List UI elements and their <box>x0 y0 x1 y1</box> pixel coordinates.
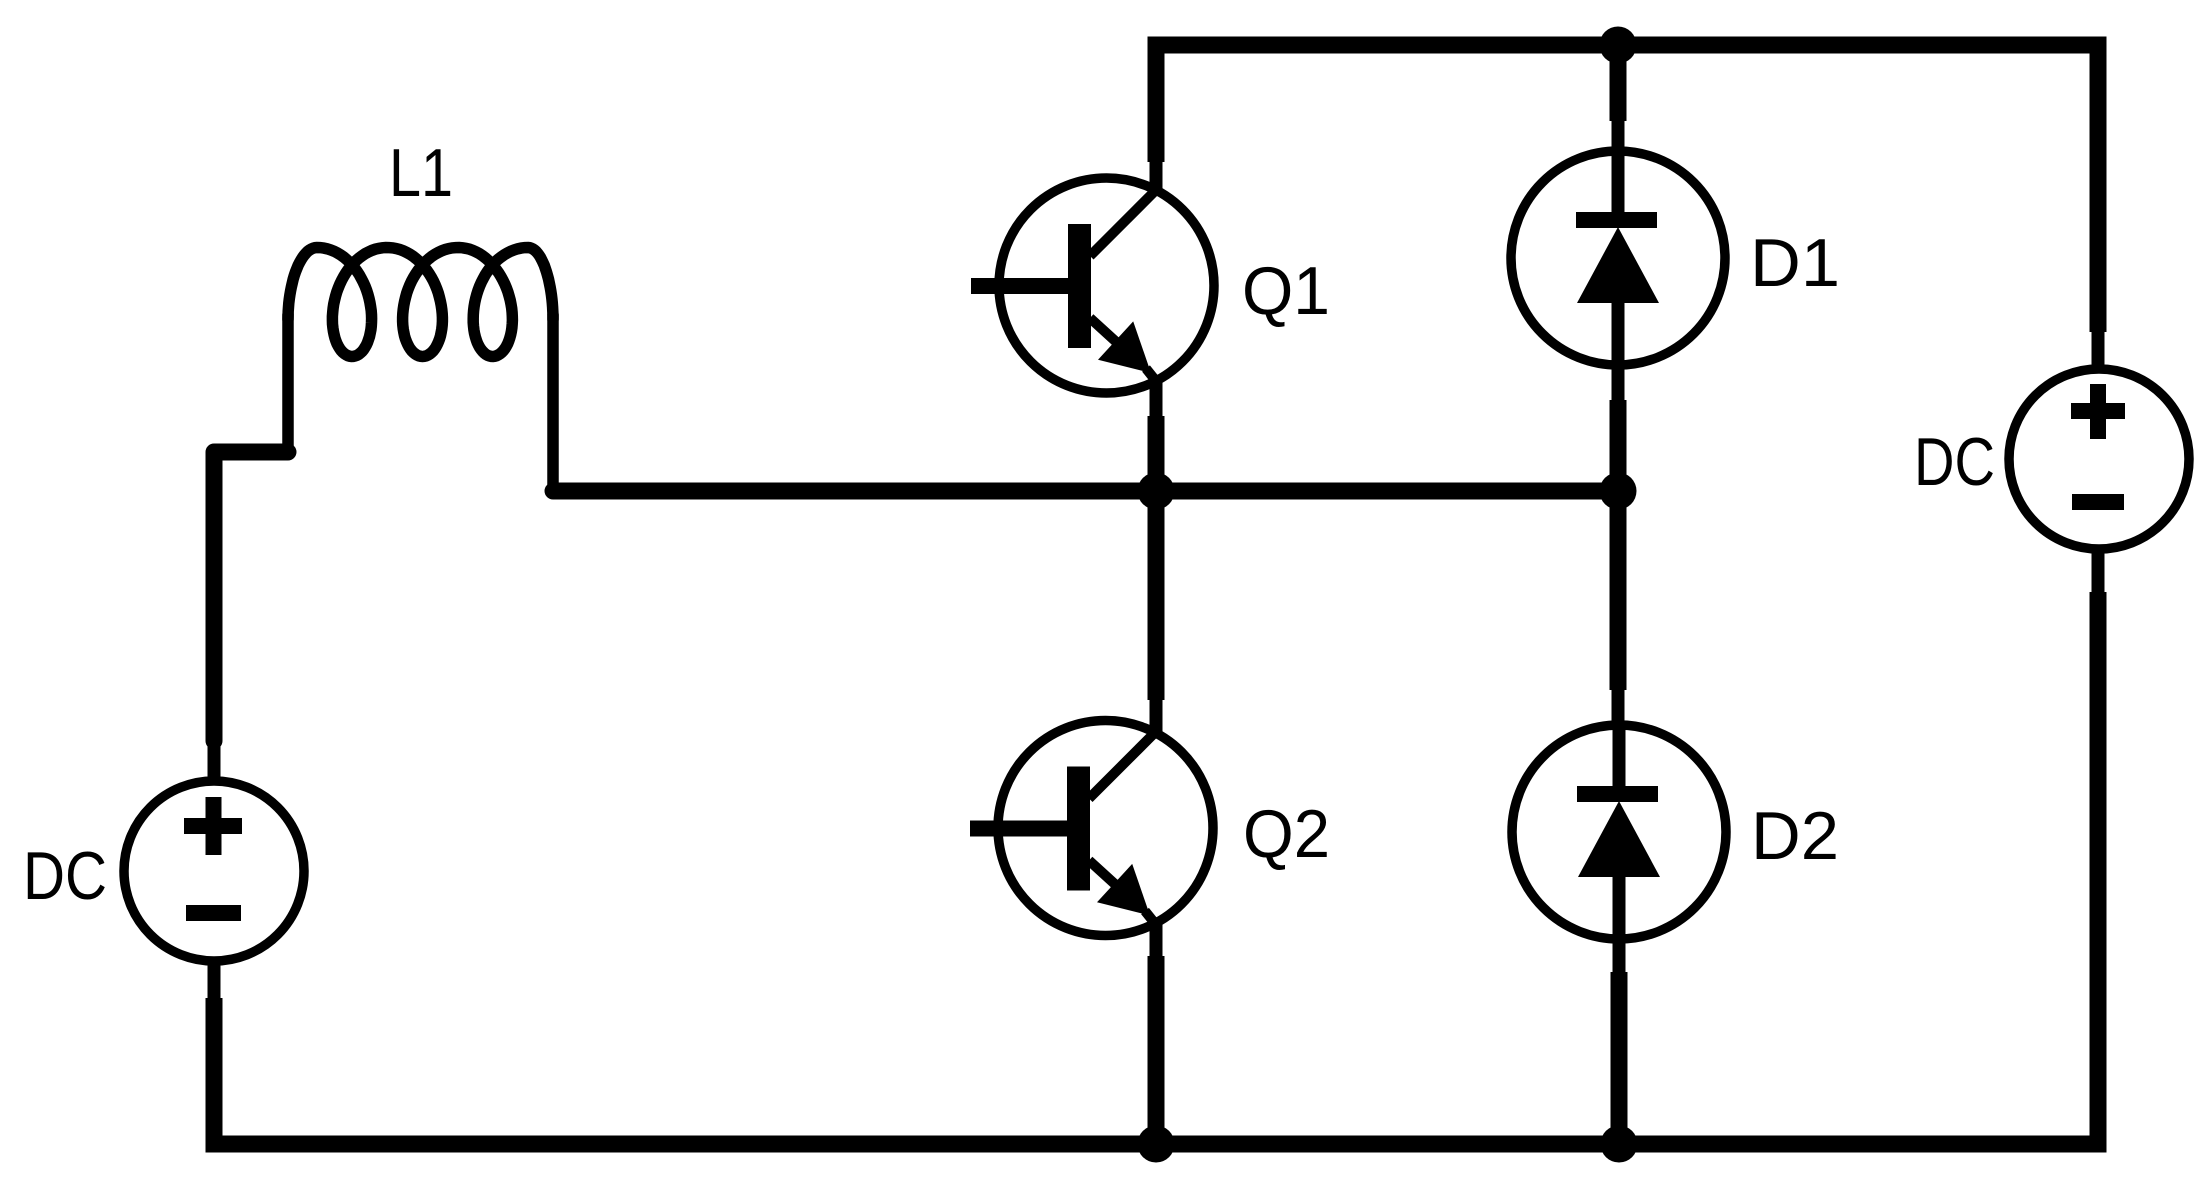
D2 cathode bar <box>1577 786 1658 802</box>
Q2 collector line <box>1089 733 1155 799</box>
svg-text:DC: DC <box>23 838 107 914</box>
node junction dot mid rail / Q1-Q2 <box>1138 473 1175 510</box>
V2 minus sign <box>2072 494 2124 510</box>
Q1 collector line <box>1090 190 1156 256</box>
V1 plus sign <box>184 797 242 855</box>
V1 minus sign <box>186 905 241 921</box>
wire D1 anode to mid rail <box>1610 400 1627 491</box>
Q1 base bar <box>1068 224 1091 348</box>
node junction dot bottom rail / Q2 <box>1138 1126 1175 1163</box>
svg-text:DC: DC <box>1914 424 1995 500</box>
wire bottom rail from left DC down, across, and up to right DC <box>214 592 2098 1144</box>
transistor Q1 circle <box>999 178 1214 393</box>
D2 triangle <box>1578 801 1660 877</box>
wire top rail from Q1 collector up, across to right DC <box>1156 45 2098 332</box>
wire pin stub bottom of right DC <box>2092 549 2105 596</box>
Q1 emitter line <box>1090 318 1124 349</box>
wire mid rail to Q2 collector <box>1148 491 1165 700</box>
Q2 emitter arrowhead <box>1097 864 1150 916</box>
wire Q2 emitter to bottom rail <box>1148 956 1165 1144</box>
svg-text:D2: D2 <box>1751 798 1839 874</box>
inductor L1 right leg <box>547 315 559 488</box>
Q2 emitter tip segment <box>1145 911 1155 924</box>
V2 plus sign <box>2071 384 2125 439</box>
wire pin stub bottom of D2 <box>1613 937 1626 976</box>
D2 anode lead inside <box>1613 874 1626 938</box>
svg-text:D1: D1 <box>1750 225 1840 301</box>
wire left branch: DC+ up and over to inductor <box>214 452 288 741</box>
wire mid rail (inductor to D1/D2 node) <box>553 483 1618 500</box>
Q2 emitter line <box>1089 861 1123 892</box>
svg-text:Q2: Q2 <box>1243 796 1330 872</box>
Q1 emitter tip segment <box>1146 369 1156 382</box>
wire from top rail down to D1 <box>1610 45 1627 121</box>
wire mid rail to D2 cathode <box>1610 491 1627 690</box>
wire pin stub top of left DC <box>208 737 221 782</box>
wire pin stub top of D2 <box>1612 686 1625 726</box>
wire pin stub bottom of Q2 <box>1150 921 1163 960</box>
node junction dot mid rail / D1-D2 <box>1600 473 1637 510</box>
D1 cathode bar <box>1576 212 1657 228</box>
svg-text:Q1: Q1 <box>1242 253 1330 329</box>
D2 cathode lead inside <box>1613 726 1626 787</box>
wire pin stub bottom of D1 <box>1612 363 1625 404</box>
svg-text:L1: L1 <box>389 135 453 211</box>
D1 triangle <box>1577 227 1659 303</box>
D1 cathode lead inside <box>1612 152 1625 213</box>
node junction dot bottom rail / D2 <box>1601 1126 1638 1163</box>
wire pin stub bottom of Q1 <box>1150 381 1163 420</box>
wire pin stub top of Q1 <box>1150 156 1163 192</box>
inductor L1 coil <box>288 248 553 357</box>
wire D2 anode to bottom rail <box>1611 972 1628 1144</box>
diode D2 circle <box>1512 725 1726 939</box>
diode D1 circle <box>1511 151 1725 365</box>
node junction dot top rail / D1 <box>1600 27 1637 64</box>
wire pin stub bottom of left DC <box>208 960 221 1002</box>
transistor Q2 circle <box>998 721 1213 936</box>
Q2 base lead <box>970 821 1067 837</box>
D1 anode lead inside <box>1612 300 1625 364</box>
wire pin stub top of Q2 <box>1150 696 1163 735</box>
DC source V1 circle (left) <box>124 781 304 961</box>
Q1 emitter arrowhead <box>1098 321 1151 373</box>
wire pin stub top of D1 <box>1612 117 1625 153</box>
DC source V2 circle (right) <box>2009 369 2189 549</box>
inductor L1 left leg <box>282 315 294 450</box>
Q2 base bar <box>1067 767 1090 891</box>
wire Q1 emitter to mid rail <box>1148 416 1165 491</box>
wire pin stub top of right DC <box>2092 328 2105 370</box>
Q1 base lead <box>971 278 1068 294</box>
